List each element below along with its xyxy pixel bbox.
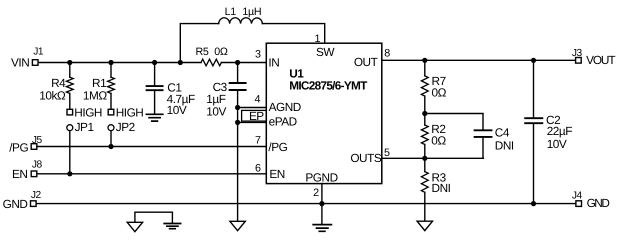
svg-text:GND: GND xyxy=(3,197,28,211)
svg-text:/PG: /PG xyxy=(9,141,28,155)
svg-text:L1: L1 xyxy=(225,6,237,18)
svg-text:MIC2875/6-YMT: MIC2875/6-YMT xyxy=(289,78,368,92)
svg-text:J5: J5 xyxy=(32,135,43,146)
svg-text:J8: J8 xyxy=(32,160,43,171)
svg-text:J2: J2 xyxy=(31,190,42,201)
svg-text:J4: J4 xyxy=(572,190,583,201)
svg-text:VIN: VIN xyxy=(11,55,29,69)
svg-text:ePAD: ePAD xyxy=(269,115,297,129)
svg-text:0Ω: 0Ω xyxy=(431,133,446,147)
svg-text:GND: GND xyxy=(587,196,610,210)
svg-text:8: 8 xyxy=(384,48,390,60)
svg-text:OUTS: OUTS xyxy=(350,151,382,165)
svg-text:IN: IN xyxy=(268,56,279,70)
svg-text:10V: 10V xyxy=(167,103,187,117)
svg-text:EN: EN xyxy=(12,167,28,181)
svg-text:OUT: OUT xyxy=(354,55,378,69)
svg-text:7: 7 xyxy=(255,135,261,147)
svg-text:AGND: AGND xyxy=(269,100,301,114)
svg-text:EN: EN xyxy=(269,167,285,181)
svg-text:6: 6 xyxy=(255,163,261,175)
svg-text:JP1: JP1 xyxy=(75,120,94,134)
svg-text:JP2: JP2 xyxy=(116,120,135,134)
svg-text:10V: 10V xyxy=(206,104,226,118)
svg-text:1µH: 1µH xyxy=(242,6,261,18)
svg-text:0Ω: 0Ω xyxy=(432,85,447,99)
svg-text:DNI: DNI xyxy=(432,181,451,195)
svg-text:HIGH: HIGH xyxy=(116,106,144,120)
svg-text:0Ω: 0Ω xyxy=(214,46,228,58)
svg-text:3: 3 xyxy=(255,48,261,60)
svg-text:SW: SW xyxy=(316,45,335,59)
svg-text:4: 4 xyxy=(254,94,260,106)
svg-text:2: 2 xyxy=(313,187,319,199)
svg-text:10kΩ: 10kΩ xyxy=(39,88,66,102)
svg-text:R5: R5 xyxy=(196,46,209,58)
svg-text:PGND: PGND xyxy=(305,170,337,184)
svg-text:C4: C4 xyxy=(495,126,510,140)
svg-text:EP: EP xyxy=(249,109,264,123)
svg-text:5: 5 xyxy=(384,147,390,159)
svg-text:/PG: /PG xyxy=(268,140,287,154)
svg-text:J3: J3 xyxy=(572,48,583,59)
svg-text:1MΩ: 1MΩ xyxy=(83,88,107,102)
svg-text:J1: J1 xyxy=(33,46,44,57)
svg-text:1: 1 xyxy=(314,33,320,45)
svg-text:VOUT: VOUT xyxy=(586,53,615,67)
svg-text:10V: 10V xyxy=(547,137,567,151)
svg-text:HIGH: HIGH xyxy=(74,106,102,120)
svg-text:DNI: DNI xyxy=(495,139,514,153)
